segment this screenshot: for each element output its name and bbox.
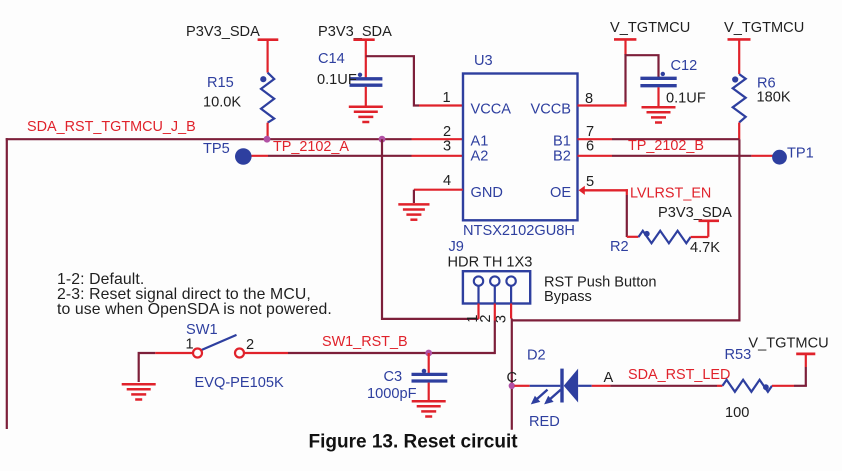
- ground (C12): [642, 107, 676, 122]
- wire R2 pullup vertical: [707, 221, 709, 237]
- wire J9 pin1 stub: [477, 304, 479, 319]
- wire J9 pin2 stub: [494, 304, 496, 321]
- wire R15 top lead: [267, 40, 269, 73]
- svg-text:B2: B2: [553, 149, 571, 165]
- wire R6 bottom lead: [738, 123, 740, 140]
- svg-text:1: 1: [443, 90, 451, 106]
- wire A1 net horizontal: [6, 138, 412, 140]
- wire J9 pin3 drop: [511, 319, 513, 430]
- svg-text:P3V3_SDA: P3V3_SDA: [186, 24, 260, 40]
- capacitor C12: [640, 58, 705, 107]
- wire left vertical: [6, 138, 8, 429]
- svg-text:10.0K: 10.0K: [203, 95, 241, 111]
- svg-text:4: 4: [443, 173, 451, 189]
- wire pin5 OE stub with arrow: [579, 186, 628, 195]
- svg-text:A: A: [604, 370, 614, 386]
- wire pin2 stub: [412, 138, 464, 140]
- resistor R6: [732, 74, 791, 122]
- wire R53 right lead: [772, 385, 794, 387]
- wire R53 left lead: [717, 385, 723, 387]
- wire bypass right vertical: [738, 139, 740, 321]
- wire pin1 stub: [419, 104, 463, 106]
- svg-text:0.1UF: 0.1UF: [666, 91, 706, 107]
- node junction D2: [509, 383, 515, 389]
- wire R2 left lead: [627, 236, 639, 238]
- wire pin3 stub: [412, 155, 464, 157]
- svg-text:SW1_RST_B: SW1_RST_B: [322, 334, 408, 350]
- wire B1 net horizontal: [612, 138, 739, 140]
- svg-text:D2: D2: [527, 348, 546, 364]
- wire pin4 stub: [414, 189, 463, 191]
- svg-text:Bypass: Bypass: [544, 289, 592, 305]
- wire SW1 right lead: [244, 352, 288, 354]
- IC U3 NTSX2102GU8H: [463, 53, 578, 239]
- power symbol P3V3_SDA (C14): [318, 24, 392, 40]
- wire OE vertical: [626, 189, 628, 195]
- node junction R15: [264, 136, 271, 143]
- svg-text:LVLRST_EN: LVLRST_EN: [630, 186, 711, 202]
- svg-text:V_TGTMCU: V_TGTMCU: [610, 20, 690, 36]
- wire R2 right lead: [691, 236, 709, 238]
- node junction bypass drop: [379, 136, 386, 143]
- svg-text:B1: B1: [553, 134, 571, 150]
- svg-text:J9: J9: [449, 239, 464, 255]
- svg-text:5: 5: [586, 174, 594, 190]
- capacitor C3: [367, 369, 447, 402]
- wire C3 bottom lead: [428, 383, 430, 400]
- wire J9 pin2 drop: [494, 321, 496, 355]
- svg-text:2: 2: [246, 337, 254, 353]
- wire D2 anode lead: [592, 385, 611, 387]
- svg-text:4.7K: 4.7K: [690, 240, 720, 256]
- wire C3 top lead: [428, 353, 430, 373]
- svg-text:C3: C3: [384, 369, 403, 385]
- svg-text:TP_2102_B: TP_2102_B: [628, 138, 704, 154]
- wire VCCB maroon: [624, 54, 626, 103]
- svg-text:SDA_RST_LED: SDA_RST_LED: [628, 367, 730, 383]
- power symbol V_TGTMCU (R53): [748, 336, 828, 354]
- svg-text:NTSX2102GU8H: NTSX2102GU8H: [463, 223, 575, 239]
- svg-text:3: 3: [494, 315, 510, 323]
- svg-text:VCCB: VCCB: [531, 102, 572, 118]
- wire C14 top lead: [365, 40, 367, 78]
- wire pin6 stub: [578, 155, 613, 157]
- wire VCCB power lead: [624, 39, 626, 55]
- svg-text:1: 1: [186, 337, 194, 353]
- svg-text:R15: R15: [207, 75, 234, 91]
- svg-text:EVQ-PE105K: EVQ-PE105K: [195, 375, 284, 391]
- svg-text:C14: C14: [318, 51, 345, 67]
- svg-text:A1: A1: [471, 134, 489, 150]
- svg-text:U3: U3: [474, 53, 493, 69]
- wire J9 pin3 stub: [510, 304, 512, 319]
- svg-text:P3V3_SDA: P3V3_SDA: [318, 24, 392, 40]
- svg-text:to use when OpenSDA is not pow: to use when OpenSDA is not powered.: [57, 301, 332, 318]
- wire R6 top lead: [738, 39, 740, 74]
- wire VCCA branch maroon: [366, 56, 419, 105]
- capacitor C14: [317, 51, 382, 88]
- power symbol V_TGTMCU (R6): [724, 20, 804, 39]
- resistor R15: [203, 73, 274, 123]
- svg-text:HDR TH 1X3: HDR TH 1X3: [448, 255, 533, 271]
- ground (SW1): [122, 384, 156, 399]
- switch SW1: [186, 322, 284, 391]
- svg-text:RED: RED: [529, 414, 560, 430]
- wire C14 bottom lead: [365, 87, 367, 106]
- wire SW1 left lead: [155, 352, 193, 354]
- wire bypass horizontal: [382, 318, 479, 320]
- svg-text:3: 3: [443, 139, 451, 155]
- ground (C3): [412, 401, 446, 416]
- power symbol P3V3_SDA (R2): [658, 205, 732, 221]
- wire pin7 stub: [578, 138, 613, 140]
- wire pin8 stub: [578, 104, 627, 106]
- resistor R2: [610, 231, 720, 256]
- power symbol V_TGTMCU (VCCB): [610, 20, 690, 39]
- svg-text:GND: GND: [471, 185, 503, 201]
- wire R15 bottom lead: [267, 123, 269, 140]
- ground (C14): [349, 107, 383, 122]
- connector J9: [448, 239, 533, 304]
- svg-text:C: C: [507, 370, 518, 386]
- wire SW1 ground corner: [139, 353, 156, 382]
- ground (U3 GND): [398, 204, 429, 219]
- wire TP5 stub: [252, 155, 269, 157]
- svg-text:OE: OE: [550, 185, 571, 201]
- resistor R53: [723, 347, 773, 421]
- svg-text:2: 2: [478, 315, 494, 323]
- svg-text:SDA_RST_TGTMCU_J_B: SDA_RST_TGTMCU_J_B: [27, 119, 196, 135]
- svg-text:C12: C12: [671, 58, 698, 74]
- svg-text:100: 100: [725, 405, 749, 421]
- note RST Push Button Bypass: [544, 275, 657, 306]
- svg-text:180K: 180K: [757, 90, 791, 106]
- svg-text:A2: A2: [471, 149, 489, 165]
- note jumper usage: [57, 271, 332, 318]
- wire B2 net horizontal: [612, 155, 751, 157]
- testpoint TP5: [203, 141, 252, 165]
- svg-text:Figure 13. Reset circuit: Figure 13. Reset circuit: [309, 432, 519, 453]
- testpoint TP1: [772, 146, 814, 165]
- svg-text:R53: R53: [725, 347, 752, 363]
- wire bypass vertical: [381, 139, 383, 320]
- svg-text:P3V3_SDA: P3V3_SDA: [658, 205, 732, 221]
- wire bypass horizontal right: [512, 319, 740, 321]
- wire C12 bottom lead: [657, 87, 659, 106]
- wire A2 net horizontal: [268, 155, 412, 157]
- svg-text:R2: R2: [610, 239, 629, 255]
- wire GND drop: [413, 190, 415, 203]
- node junction C3: [425, 350, 432, 357]
- wire C12 branch: [626, 55, 659, 77]
- wire D2 cathode stub: [514, 385, 529, 387]
- wire SW1_RST_B net: [288, 352, 495, 354]
- power symbol P3V3_SDA (R15): [186, 24, 278, 40]
- svg-text:TP_2102_A: TP_2102_A: [273, 139, 349, 155]
- wire TP1 stub: [751, 155, 773, 157]
- svg-text:TP1: TP1: [787, 146, 814, 162]
- svg-text:6: 6: [586, 139, 594, 155]
- svg-text:1000pF: 1000pF: [367, 386, 417, 402]
- svg-text:0.1UF: 0.1UF: [317, 72, 357, 88]
- LED D2: [527, 348, 592, 431]
- svg-text:V_TGTMCU: V_TGTMCU: [748, 336, 828, 352]
- svg-text:TP5: TP5: [203, 141, 230, 157]
- svg-text:VCCA: VCCA: [471, 102, 512, 118]
- svg-text:V_TGTMCU: V_TGTMCU: [724, 20, 804, 36]
- wire SDA_RST_LED net: [610, 385, 717, 387]
- wire R53 pullup vertical: [805, 355, 807, 367]
